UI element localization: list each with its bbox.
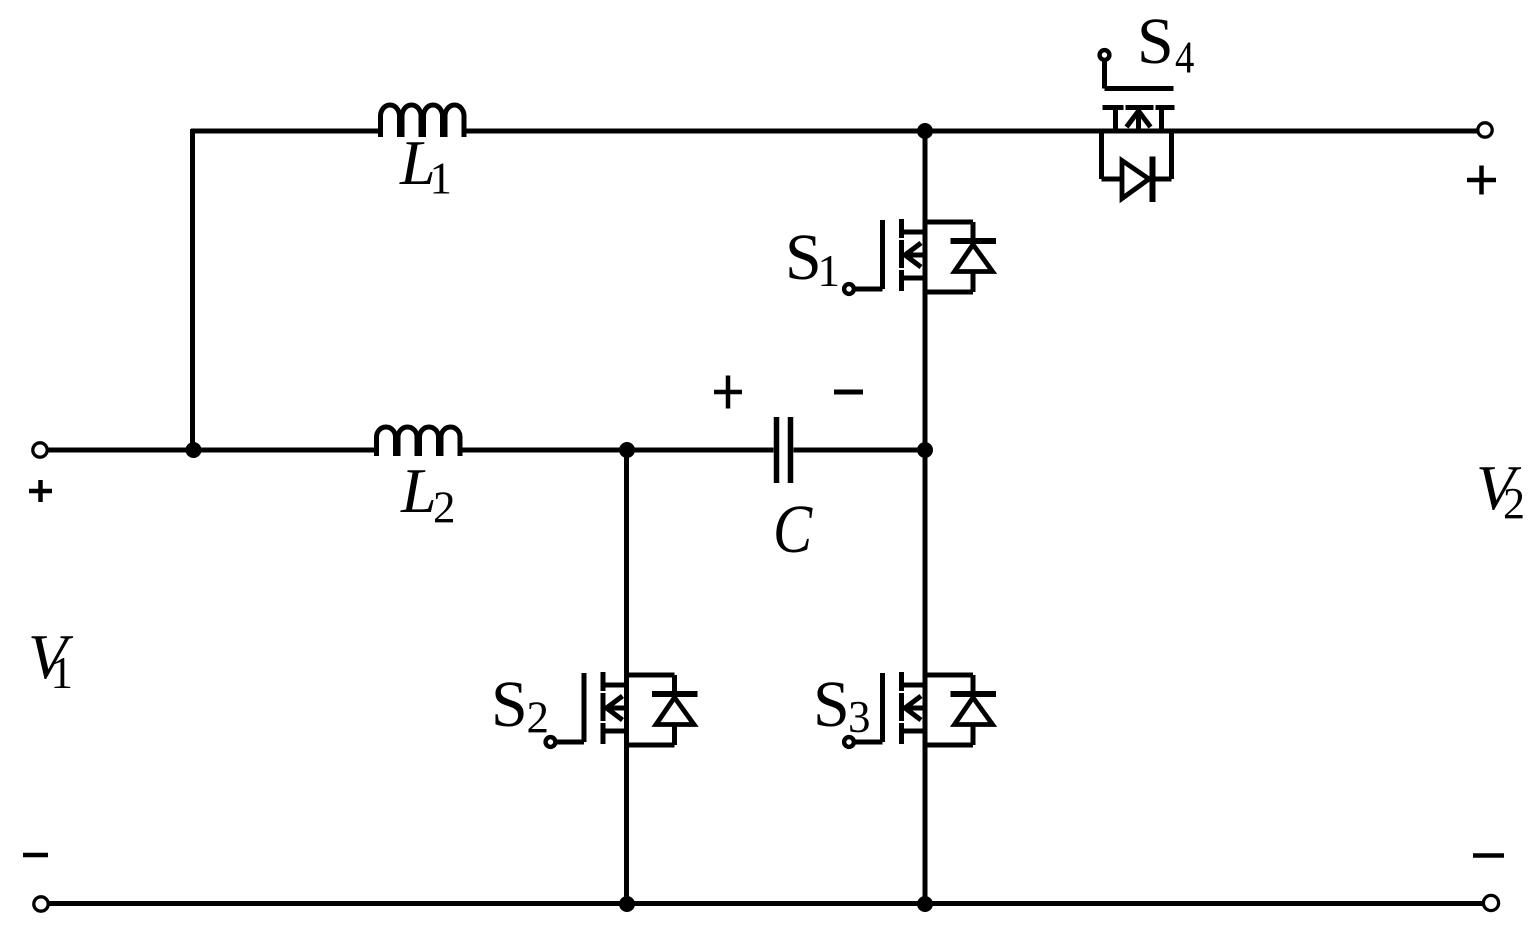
svg-text:2: 2	[1503, 479, 1525, 528]
svg-text:S: S	[491, 668, 528, 741]
svg-text:4: 4	[1175, 32, 1194, 83]
svg-text:1: 1	[430, 154, 453, 204]
svg-text:S: S	[785, 221, 822, 294]
svg-text:C: C	[773, 491, 813, 568]
svg-text:2: 2	[433, 483, 456, 533]
svg-text:S: S	[813, 668, 850, 741]
svg-text:1: 1	[818, 246, 841, 296]
svg-text:2: 2	[527, 693, 550, 743]
svg-text:L: L	[400, 455, 437, 526]
svg-text:1: 1	[51, 648, 74, 698]
svg-text:S: S	[1137, 5, 1174, 78]
svg-text:3: 3	[848, 692, 871, 742]
